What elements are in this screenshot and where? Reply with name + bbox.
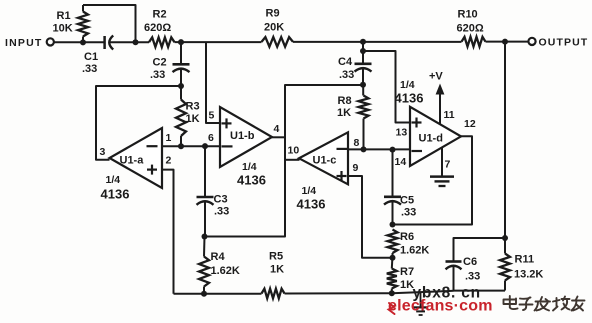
junction R6/R7/pin9 node bbox=[390, 255, 396, 261]
svg-text:U1-c: U1-c bbox=[313, 155, 337, 167]
junction C3/R4/feedback node bbox=[202, 234, 208, 240]
svg-text:C3: C3 bbox=[214, 194, 228, 206]
svg-text:U1-a: U1-a bbox=[120, 155, 145, 167]
svg-text:.33: .33 bbox=[465, 271, 480, 283]
svg-text:10: 10 bbox=[288, 145, 300, 157]
svg-text:U1-d: U1-d bbox=[419, 133, 443, 145]
U1-c minus input mark bbox=[337, 148, 348, 150]
svg-text:R3: R3 bbox=[186, 101, 200, 113]
svg-text:6: 6 bbox=[208, 132, 214, 144]
junction R3/pin1 bbox=[178, 143, 184, 149]
junction C5/R6/pin12 node bbox=[390, 222, 396, 228]
svg-text:.33: .33 bbox=[214, 206, 229, 218]
svg-text:620Ω: 620Ω bbox=[144, 22, 171, 34]
junction R4 bottom bbox=[201, 291, 207, 297]
svg-text:OUTPUT: OUTPUT bbox=[539, 37, 589, 49]
capacitor C3 bbox=[204, 146, 206, 197]
wire mid feedback vertical C4/R8 node to C3/R4 node bbox=[205, 85, 364, 237]
ground symbol U1-d pin 7 bbox=[430, 175, 454, 178]
resistor R2 bbox=[149, 37, 175, 47]
junction R2/C2/R9 node bbox=[178, 39, 184, 45]
resistor R3 bbox=[176, 100, 186, 137]
op-amp U1-a bbox=[110, 128, 163, 188]
svg-text:C4: C4 bbox=[338, 56, 353, 68]
ground symbol bottom bus bbox=[420, 293, 422, 307]
svg-text:1.62K: 1.62K bbox=[211, 265, 240, 277]
svg-text:2: 2 bbox=[166, 155, 172, 167]
wire C1 to R2 bbox=[110, 41, 150, 43]
wire U1-d pin13 branch bbox=[363, 51, 410, 123]
svg-text:C2: C2 bbox=[153, 57, 167, 69]
resistor R9 bbox=[262, 37, 294, 47]
svg-text:1K: 1K bbox=[337, 107, 351, 119]
svg-text:.33: .33 bbox=[150, 69, 165, 81]
svg-text:13.2K: 13.2K bbox=[514, 269, 543, 281]
junction output/R11 node bbox=[502, 39, 508, 45]
wire output node down to R11/C6 bbox=[504, 42, 506, 238]
svg-text:20K: 20K bbox=[264, 22, 284, 34]
svg-text:5: 5 bbox=[209, 110, 215, 122]
junction C2/R3/feedback node bbox=[178, 83, 184, 89]
svg-text:10K: 10K bbox=[53, 23, 73, 35]
svg-text:.33: .33 bbox=[82, 63, 97, 75]
junction pin13 branch bbox=[360, 48, 366, 54]
watermark chinese characters bbox=[504, 296, 585, 311]
wire bottom bus right (R5 to R11) bbox=[285, 291, 454, 294]
junction R8 bottom bbox=[361, 146, 367, 152]
wire C6 branch top bbox=[454, 238, 506, 262]
U1-d plus input mark bbox=[412, 121, 422, 123]
U1-b minus input mark bbox=[222, 145, 233, 147]
svg-text:4: 4 bbox=[274, 123, 280, 135]
wire bottom bus left (pin2 to R5) bbox=[174, 293, 262, 295]
wire U1-c pin9 to R6/R7 node bbox=[348, 176, 393, 258]
svg-text:9: 9 bbox=[353, 162, 359, 174]
svg-text:INPUT: INPUT bbox=[5, 37, 43, 49]
svg-text:1/4: 1/4 bbox=[242, 161, 257, 173]
resistor R8 bbox=[359, 96, 369, 119]
svg-text:7: 7 bbox=[445, 159, 451, 171]
svg-text:R2: R2 bbox=[153, 9, 167, 21]
wire R1 top loop bbox=[83, 5, 136, 42]
svg-text:elecfans·com: elecfans·com bbox=[388, 297, 493, 314]
svg-text:1/4: 1/4 bbox=[400, 79, 415, 91]
pin 7 ground wire bbox=[441, 148, 443, 176]
svg-text:4136: 4136 bbox=[395, 91, 424, 106]
svg-text:3: 3 bbox=[100, 146, 106, 158]
wire U1-c pin10 output stub bbox=[285, 159, 300, 161]
svg-text:8: 8 bbox=[354, 137, 360, 149]
U1-a plus input mark bbox=[147, 169, 157, 171]
resistor R1 bbox=[78, 12, 88, 37]
svg-text:R7: R7 bbox=[400, 266, 414, 278]
resistor R11 bbox=[500, 254, 510, 281]
capacitor C2 bbox=[180, 42, 182, 64]
wire U1-d pin12 output to C5/R6 node bbox=[393, 136, 473, 224]
junction C3 top bbox=[202, 143, 208, 149]
op-amp U1-b bbox=[220, 107, 272, 167]
wire R10 to output bbox=[486, 41, 529, 43]
wire pin1 to pin6 line bbox=[162, 145, 220, 147]
wire R9 to R10 bbox=[293, 41, 462, 43]
svg-text:R6: R6 bbox=[400, 231, 414, 243]
svg-text:11: 11 bbox=[444, 109, 455, 121]
op-amp U1-d bbox=[410, 107, 461, 166]
input terminal bbox=[47, 38, 54, 45]
svg-text:13: 13 bbox=[396, 127, 408, 139]
resistor R10 bbox=[462, 37, 486, 47]
svg-text:1/4: 1/4 bbox=[106, 174, 121, 186]
junction R1 bottom bbox=[80, 39, 86, 45]
junction main/C4 node bbox=[360, 39, 366, 45]
svg-text:C1: C1 bbox=[84, 51, 98, 63]
svg-text:+V: +V bbox=[429, 71, 443, 83]
wire U1-a pin2 down to bottom bus bbox=[162, 170, 174, 294]
svg-text:R11: R11 bbox=[515, 254, 535, 266]
junction R11/C6 top node bbox=[502, 235, 508, 241]
capacitor C5 bbox=[392, 150, 394, 197]
wire C6/R11 bottom bbox=[454, 290, 506, 292]
U1-c plus input mark bbox=[337, 175, 347, 177]
svg-text:620Ω: 620Ω bbox=[457, 23, 484, 35]
resistor R5 bbox=[262, 289, 285, 299]
resistor R6 bbox=[388, 230, 398, 254]
svg-text:1/4: 1/4 bbox=[302, 185, 317, 197]
svg-text:C5: C5 bbox=[400, 195, 414, 207]
U1-b plus input mark bbox=[222, 122, 232, 124]
svg-text:1K: 1K bbox=[270, 264, 284, 276]
svg-text:R8: R8 bbox=[338, 95, 352, 107]
svg-text:4136: 4136 bbox=[101, 187, 130, 202]
svg-text:1K: 1K bbox=[186, 113, 200, 125]
svg-text:1.62K: 1.62K bbox=[400, 245, 429, 257]
svg-text:4136: 4136 bbox=[237, 173, 266, 188]
op-amp U1-c bbox=[299, 132, 348, 184]
wire pin8 to pin14 line bbox=[348, 148, 410, 150]
svg-text:12: 12 bbox=[464, 118, 476, 130]
svg-text:1: 1 bbox=[166, 132, 172, 144]
svg-text:14: 14 bbox=[395, 156, 407, 168]
wire U1-b pin5 branch from main rail bbox=[206, 42, 220, 123]
svg-text:R1: R1 bbox=[57, 10, 71, 22]
junction C5 top bbox=[390, 147, 396, 153]
U1-a minus input mark bbox=[147, 145, 158, 147]
U1-d minus input mark bbox=[412, 150, 423, 152]
svg-text:4136: 4136 bbox=[297, 197, 326, 212]
svg-text:R4: R4 bbox=[211, 251, 226, 263]
svg-text:R5: R5 bbox=[269, 251, 283, 263]
svg-text:R10: R10 bbox=[458, 9, 478, 21]
+V supply arrow pin 11 bbox=[439, 93, 441, 124]
capacitor C4 bbox=[362, 42, 364, 64]
capacitor C1 bbox=[103, 36, 106, 49]
wire input to C1 bbox=[54, 41, 104, 43]
watermark red spark bbox=[389, 303, 395, 314]
junction R1 loop right bbox=[133, 39, 139, 45]
svg-text:.33: .33 bbox=[339, 69, 354, 81]
capacitor C6 bbox=[446, 260, 462, 263]
wire R2 to R9 bbox=[175, 41, 262, 43]
junction R7 bottom bbox=[389, 290, 395, 296]
wire U1-b pin4 output stub bbox=[272, 136, 285, 138]
svg-text:U1-b: U1-b bbox=[230, 130, 255, 142]
resistor R4 bbox=[199, 257, 209, 287]
wire U1-a feedback loop pin3 to C2/R3 node bbox=[96, 86, 181, 160]
resistor R7 bbox=[387, 269, 397, 289]
svg-text:C6: C6 bbox=[463, 256, 477, 268]
svg-text:.33: .33 bbox=[401, 207, 416, 219]
junction C4/R8/feedback node bbox=[360, 82, 366, 88]
svg-text:R9: R9 bbox=[266, 8, 280, 20]
output terminal bbox=[528, 38, 535, 45]
